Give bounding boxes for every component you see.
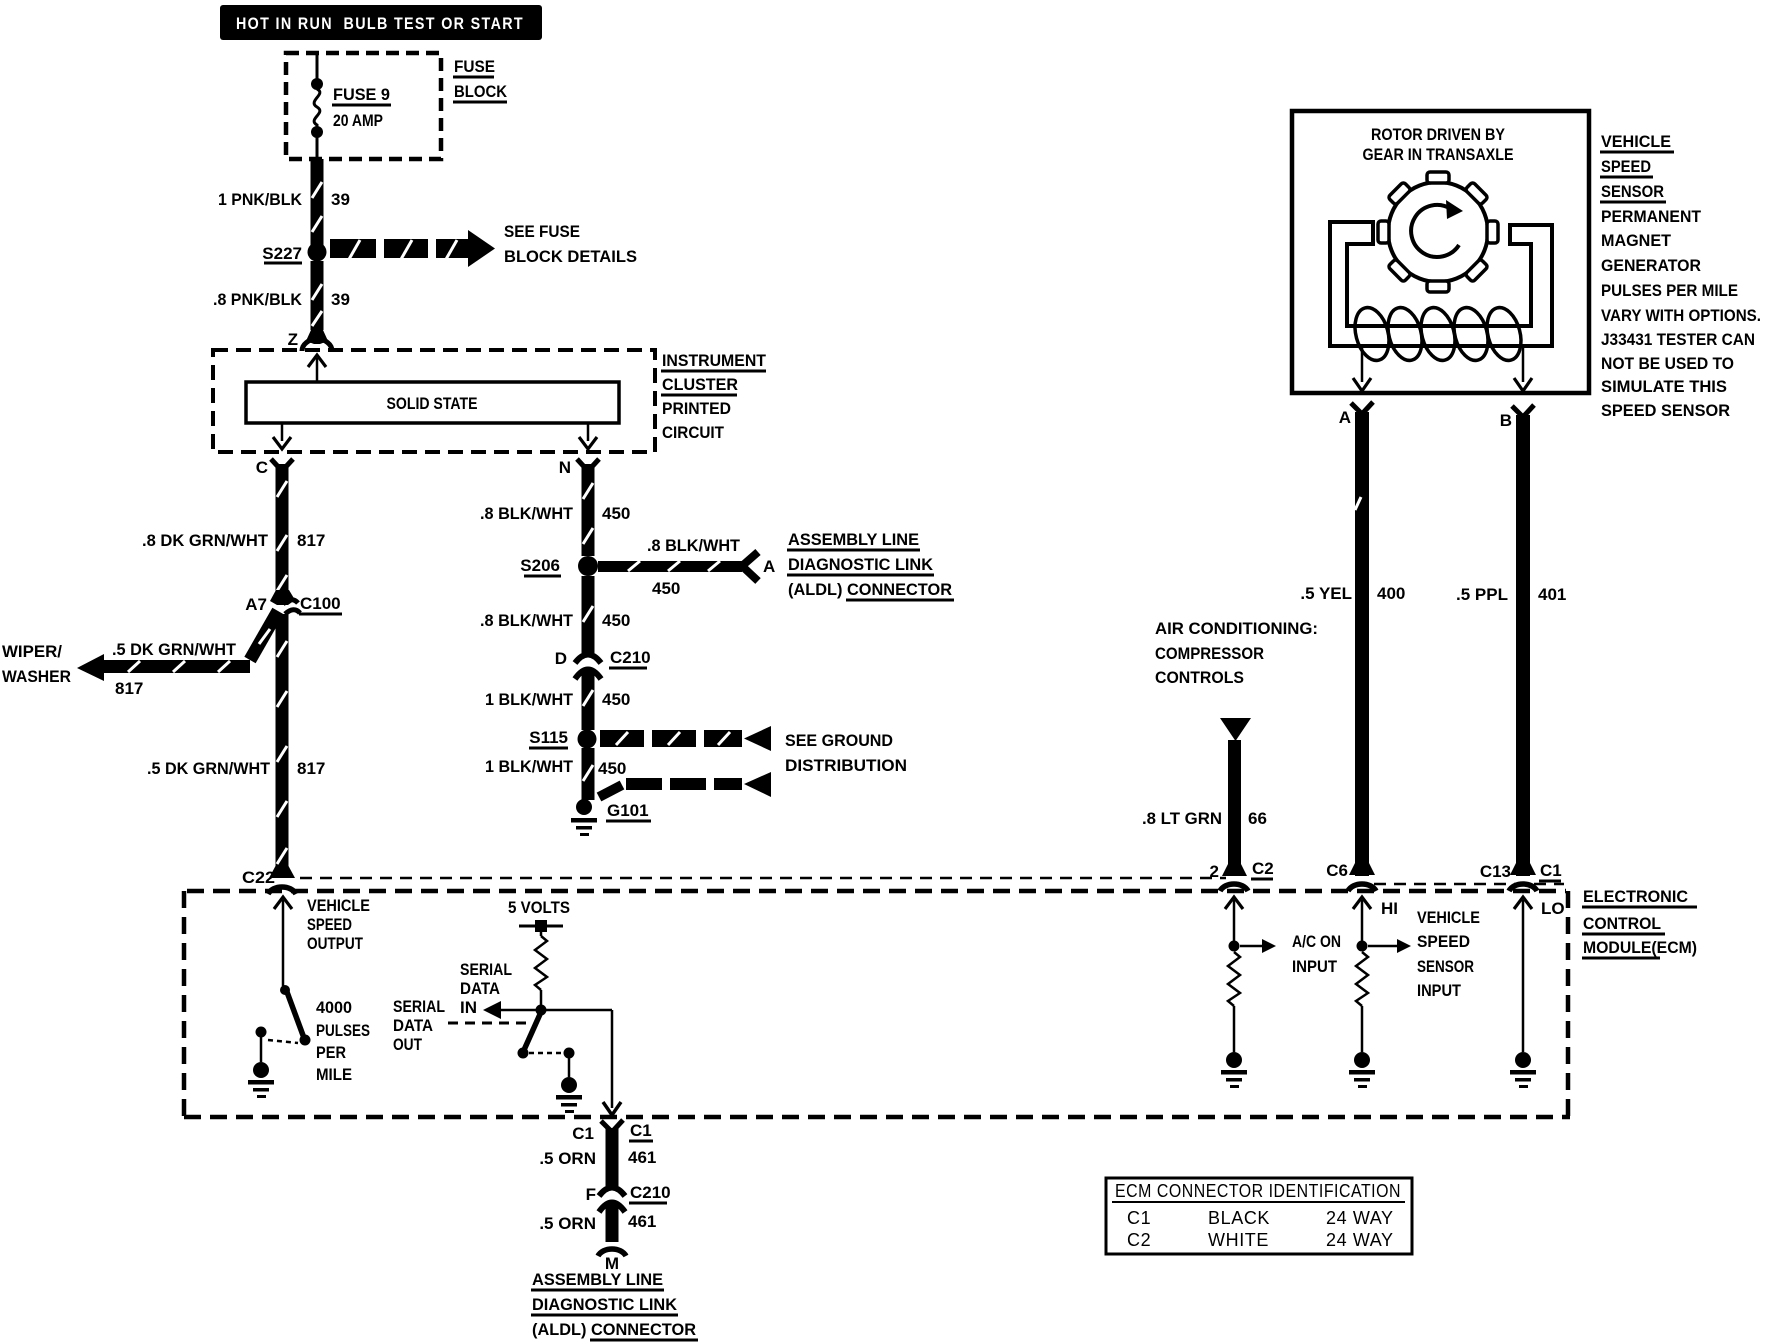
svg-text:SERIAL: SERIAL bbox=[393, 997, 445, 1016]
svg-text:.5 DK GRN/WHT: .5 DK GRN/WHT bbox=[112, 640, 237, 659]
ground G101 bbox=[571, 799, 651, 836]
svg-text:Z: Z bbox=[288, 330, 298, 349]
svg-text:BLOCK DETAILS: BLOCK DETAILS bbox=[504, 247, 637, 266]
wire .8 BLK/WHT 450 seg1 hatched bbox=[582, 464, 595, 556]
splice S227 bbox=[262, 243, 326, 264]
svg-text:817: 817 bbox=[115, 679, 143, 698]
svg-text:PULSES: PULSES bbox=[316, 1021, 370, 1040]
wire label .8 DK GRN/WHT 817 bbox=[142, 531, 325, 550]
wire serial contact to ground bbox=[568, 1053, 571, 1077]
svg-text:400: 400 bbox=[1377, 584, 1405, 603]
svg-text:BLACK: BLACK bbox=[1208, 1208, 1270, 1228]
wire dashed arrow to ground distribution bbox=[599, 772, 771, 797]
wire arrow up from A/C input bbox=[1225, 897, 1243, 941]
wire label .5 PPL 401 bbox=[1456, 585, 1566, 604]
svg-text:INPUT: INPUT bbox=[1417, 981, 1462, 1000]
svg-text:PER: PER bbox=[316, 1043, 346, 1062]
wire .8 DK GRN/WHT 817 hatched bbox=[276, 464, 289, 598]
svg-text:C100: C100 bbox=[300, 594, 341, 613]
node fuse top terminal bbox=[311, 78, 323, 90]
wire .8 BLK/WHT 450 seg2 hatched bbox=[582, 576, 595, 653]
connector pin 2 C2 ECM bbox=[1210, 859, 1274, 891]
svg-text:WASHER: WASHER bbox=[2, 667, 71, 686]
svg-text:1 BLK/WHT: 1 BLK/WHT bbox=[485, 757, 574, 776]
svg-text:S206: S206 bbox=[520, 556, 560, 575]
wire .5 DK GRN/WHT 817 hatched bbox=[276, 614, 289, 877]
wire arrow up HI bbox=[1353, 897, 1398, 941]
svg-text:A: A bbox=[763, 557, 775, 576]
fuse F9 element squiggle bbox=[314, 89, 320, 128]
svg-text:INSTRUMENT: INSTRUMENT bbox=[662, 351, 767, 370]
node 5 VOLTS supply bbox=[508, 898, 570, 932]
node ALDL connector label bottom bbox=[531, 1270, 698, 1340]
svg-text:817: 817 bbox=[297, 531, 325, 550]
wire contact to ground bbox=[260, 1037, 263, 1062]
node SEE GROUND DISTRIBUTION label bbox=[785, 731, 907, 775]
connector pin C bbox=[256, 458, 293, 477]
svg-text:DIAGNOSTIC LINK: DIAGNOSTIC LINK bbox=[532, 1295, 678, 1314]
wire 1 BLK/WHT 450 seg4 hatched bbox=[582, 748, 595, 800]
wire serial data down to C1 bbox=[603, 1010, 621, 1115]
solid state module box bbox=[246, 382, 619, 423]
svg-text:1 PNK/BLK: 1 PNK/BLK bbox=[218, 190, 303, 209]
svg-text:DIAGNOSTIC LINK: DIAGNOSTIC LINK bbox=[788, 555, 934, 574]
svg-text:PULSES PER MILE: PULSES PER MILE bbox=[1601, 281, 1738, 300]
svg-text:A: A bbox=[1339, 408, 1351, 427]
wire label .8 BLK/WHT 450 horizontal bbox=[647, 536, 741, 598]
node serial data junction bbox=[536, 1005, 547, 1016]
wire .8 LT GRN 66 bbox=[1228, 740, 1241, 876]
switch serial data blade bbox=[518, 1012, 542, 1059]
sensor rotation arrow bbox=[1411, 200, 1463, 257]
wire dashed actuate link bbox=[268, 1040, 298, 1043]
svg-text:C1: C1 bbox=[1540, 861, 1562, 880]
node A/C ON INPUT label bbox=[1292, 932, 1341, 976]
svg-text:OUT: OUT bbox=[393, 1035, 422, 1054]
connector C210 pin D bbox=[555, 648, 651, 679]
splice S206 bbox=[520, 556, 598, 576]
instrument cluster label bbox=[661, 351, 767, 442]
svg-text:39: 39 bbox=[331, 190, 350, 209]
node SERIAL DATA OUT label bbox=[393, 997, 445, 1054]
ECM dashed box inner top line right bbox=[1374, 883, 1564, 886]
wire arrow down to pin C bbox=[273, 423, 291, 449]
svg-text:INPUT: INPUT bbox=[1292, 957, 1338, 976]
svg-text:.8 BLK/WHT: .8 BLK/WHT bbox=[647, 536, 741, 555]
svg-text:SENSOR: SENSOR bbox=[1417, 957, 1474, 976]
switch serial contact node bbox=[564, 1048, 575, 1059]
svg-text:.5 DK GRN/WHT: .5 DK GRN/WHT bbox=[147, 759, 271, 778]
svg-text:.8 BLK/WHT: .8 BLK/WHT bbox=[480, 504, 574, 523]
svg-text:VEHICLE: VEHICLE bbox=[1417, 908, 1480, 927]
wire dashed serial switch link bbox=[529, 1052, 563, 1055]
svg-text:WHITE: WHITE bbox=[1208, 1230, 1269, 1250]
svg-text:ASSEMBLY LINE: ASSEMBLY LINE bbox=[788, 530, 919, 549]
node ALDL connector label right bbox=[787, 530, 954, 600]
svg-text:HOT IN RUN BULB TEST OR START: HOT IN RUN BULB TEST OR START bbox=[236, 14, 524, 33]
wire label .5 DK GRN/WHT 817 bbox=[147, 759, 325, 778]
svg-text:ECM CONNECTOR IDENTIFICATION: ECM CONNECTOR IDENTIFICATION bbox=[1115, 1181, 1401, 1201]
resistor A/C input bbox=[1228, 952, 1240, 1052]
wire .5 ORN 461 lower bbox=[606, 1204, 619, 1242]
connector C210 pin F bbox=[586, 1183, 671, 1212]
wire label 1 BLK/WHT 450 seg3 bbox=[485, 690, 630, 709]
svg-text:F: F bbox=[586, 1185, 596, 1204]
node VEHICLE SPEED SENSOR note label bbox=[1600, 132, 1761, 420]
svg-text:C1: C1 bbox=[1127, 1208, 1151, 1228]
svg-text:VEHICLE: VEHICLE bbox=[307, 896, 370, 915]
wire A/C ON INPUT arrow right bbox=[1240, 939, 1276, 953]
svg-text:401: 401 bbox=[1538, 585, 1566, 604]
svg-text:.5 ORN: .5 ORN bbox=[539, 1149, 596, 1168]
ECM dashed box right edge bbox=[1566, 891, 1571, 1117]
svg-text:(ALDL) CONNECTOR: (ALDL) CONNECTOR bbox=[532, 1320, 696, 1339]
svg-text:HI: HI bbox=[1381, 899, 1398, 918]
wire fuse top lead bbox=[316, 55, 319, 80]
svg-text:SOLID STATE: SOLID STATE bbox=[387, 394, 478, 413]
wire fuse bottom lead bbox=[316, 136, 319, 159]
svg-text:24 WAY: 24 WAY bbox=[1326, 1230, 1394, 1250]
svg-text:20 AMP: 20 AMP bbox=[333, 111, 383, 130]
svg-text:450: 450 bbox=[602, 690, 630, 709]
svg-text:.8 PNK/BLK: .8 PNK/BLK bbox=[213, 290, 303, 309]
ground VSS LO bbox=[1510, 1052, 1536, 1088]
ECM connector identification table bbox=[1106, 1178, 1412, 1254]
svg-text:SIMULATE THIS: SIMULATE THIS bbox=[1601, 377, 1727, 396]
connector pin M ALDL bbox=[598, 1249, 626, 1273]
connector pin C6 ECM bbox=[1326, 861, 1376, 891]
wire branch to wiper/washer hatched bbox=[77, 611, 278, 681]
wire arrow up LO bbox=[1514, 897, 1565, 1052]
svg-text:SEE FUSE: SEE FUSE bbox=[504, 222, 580, 241]
svg-text:66: 66 bbox=[1248, 809, 1267, 828]
svg-text:GEAR IN TRANSAXLE: GEAR IN TRANSAXLE bbox=[1363, 145, 1514, 164]
vehicle speed sensor box bbox=[1292, 111, 1589, 393]
svg-text:4000: 4000 bbox=[316, 998, 352, 1017]
svg-text:SPEED: SPEED bbox=[1417, 932, 1470, 951]
connector pin B sensor bbox=[1500, 405, 1534, 430]
svg-text:J33431 TESTER CAN: J33431 TESTER CAN bbox=[1601, 330, 1755, 349]
svg-text:OUTPUT: OUTPUT bbox=[307, 934, 363, 953]
ECM dashed box top edge bbox=[187, 889, 1566, 894]
wire label 1 PNK/BLK 39 bbox=[218, 190, 350, 209]
svg-text:(ALDL) CONNECTOR: (ALDL) CONNECTOR bbox=[788, 580, 952, 599]
svg-text:450: 450 bbox=[652, 579, 680, 598]
wire label .8 BLK/WHT 450 seg1 bbox=[480, 504, 630, 523]
svg-text:24 WAY: 24 WAY bbox=[1326, 1208, 1394, 1228]
ground serial data switch bbox=[556, 1077, 582, 1113]
node ROTOR DRIVEN BY GEAR IN TRANSAXLE label bbox=[1363, 125, 1514, 164]
svg-text:817: 817 bbox=[297, 759, 325, 778]
svg-text:SPEED: SPEED bbox=[307, 915, 352, 934]
svg-text:.5 YEL: .5 YEL bbox=[1300, 584, 1352, 603]
svg-text:BLOCK: BLOCK bbox=[454, 82, 508, 101]
wire dashed serial data out pointer bbox=[448, 1022, 531, 1025]
svg-text:B: B bbox=[1500, 411, 1512, 430]
svg-text:C2: C2 bbox=[1127, 1230, 1151, 1250]
wire coil lead B arrow bbox=[1514, 346, 1532, 391]
svg-text:C1: C1 bbox=[572, 1124, 594, 1143]
node FUSE BLOCK label bbox=[453, 57, 508, 102]
wire arrow to ground distribution hatched bbox=[600, 726, 771, 751]
wire VSS input arrow right bbox=[1368, 939, 1411, 953]
svg-text:MILE: MILE bbox=[316, 1065, 352, 1084]
wire label .5 YEL 400 bbox=[1300, 584, 1405, 603]
node VEHICLE SPEED SENSOR INPUT label bbox=[1417, 908, 1480, 1000]
connector pin C13 C1 ECM bbox=[1480, 861, 1562, 891]
wire label .5 ORN 461 upper bbox=[539, 1148, 656, 1168]
svg-text:SENSOR: SENSOR bbox=[1601, 182, 1664, 201]
sensor magnet core bbox=[1330, 222, 1552, 346]
svg-text:C6: C6 bbox=[1326, 861, 1348, 880]
wire from A/C controls arrow down bbox=[1220, 718, 1251, 741]
svg-text:C13: C13 bbox=[1480, 862, 1511, 881]
svg-text:.8 DK GRN/WHT: .8 DK GRN/WHT bbox=[142, 531, 269, 550]
ECM dashed box bottom edge bbox=[184, 1115, 1570, 1120]
sensor rotor gear bbox=[1378, 172, 1498, 292]
svg-text:1 BLK/WHT: 1 BLK/WHT bbox=[485, 690, 574, 709]
svg-text:450: 450 bbox=[602, 611, 630, 630]
node SEE FUSE BLOCK DETAILS label bbox=[504, 222, 637, 266]
svg-text:C2: C2 bbox=[1252, 859, 1274, 878]
svg-text:461: 461 bbox=[628, 1212, 656, 1231]
wire label .5 DK GRN/WHT 817 branch bbox=[112, 640, 237, 698]
svg-text:SERIAL: SERIAL bbox=[460, 960, 512, 979]
wire coil lead A arrow bbox=[1353, 346, 1371, 391]
svg-text:DISTRIBUTION: DISTRIBUTION bbox=[785, 756, 907, 775]
wire label .8 BLK/WHT 450 seg2 bbox=[480, 611, 630, 630]
svg-text:S115: S115 bbox=[529, 728, 568, 747]
svg-text:GENERATOR: GENERATOR bbox=[1601, 256, 1701, 275]
svg-text:LO: LO bbox=[1541, 899, 1565, 918]
fuse FUSE 9 value label bbox=[332, 85, 391, 130]
splice S115 bbox=[529, 728, 597, 749]
connector pin N bbox=[559, 458, 599, 477]
node ELECTRONIC CONTROL MODULE ECM label bbox=[1582, 887, 1697, 958]
svg-text:2: 2 bbox=[1210, 862, 1219, 881]
svg-text:G101: G101 bbox=[607, 801, 649, 820]
svg-text:COMPRESSOR: COMPRESSOR bbox=[1155, 644, 1264, 663]
svg-text:A7: A7 bbox=[245, 595, 267, 614]
svg-text:DATA: DATA bbox=[460, 979, 500, 998]
node VEHICLE SPEED OUTPUT label bbox=[307, 896, 370, 953]
svg-text:IN: IN bbox=[460, 998, 477, 1017]
wire arrow to fuse block details bbox=[330, 230, 495, 267]
svg-text:C210: C210 bbox=[630, 1183, 671, 1202]
switch contact node bbox=[256, 1027, 267, 1038]
svg-text:A/C ON: A/C ON bbox=[1292, 932, 1341, 951]
svg-text:CIRCUIT: CIRCUIT bbox=[662, 423, 725, 442]
svg-text:CONTROLS: CONTROLS bbox=[1155, 668, 1244, 687]
wire .8 BLK/WHT 450 to ALDL hatched bbox=[598, 552, 758, 581]
svg-text:CONTROL: CONTROL bbox=[1583, 914, 1661, 933]
sensor pickup coil bbox=[1350, 304, 1527, 364]
wire label .8 PNK/BLK 39 bbox=[213, 290, 350, 309]
svg-text:VEHICLE: VEHICLE bbox=[1601, 132, 1671, 151]
wire 1 PNK/BLK 39 hatched bbox=[311, 159, 324, 246]
svg-text:.5 ORN: .5 ORN bbox=[539, 1214, 596, 1233]
resistor pull-up 5V bbox=[535, 932, 547, 1006]
connector pin C22 ECM bbox=[242, 866, 296, 894]
connector pin A sensor bbox=[1339, 402, 1373, 427]
svg-text:450: 450 bbox=[598, 759, 626, 778]
node WIPER/WASHER label bbox=[2, 642, 71, 686]
svg-text:VARY WITH OPTIONS.: VARY WITH OPTIONS. bbox=[1601, 306, 1761, 325]
connector pin Z cluster bbox=[288, 330, 332, 351]
svg-text:5 VOLTS: 5 VOLTS bbox=[508, 898, 570, 917]
node AIR CONDITIONING COMPRESSOR CONTROLS label bbox=[1155, 619, 1318, 687]
wire label 1 BLK/WHT 450 seg4 bbox=[485, 757, 626, 778]
svg-text:C210: C210 bbox=[610, 648, 651, 667]
node A/C junction bbox=[1229, 941, 1240, 952]
ground VSS HI bbox=[1349, 1052, 1375, 1088]
node 4000 PULSES PER MILE label bbox=[316, 998, 370, 1084]
svg-text:SEE GROUND: SEE GROUND bbox=[785, 731, 893, 750]
svg-text:MODULE(ECM): MODULE(ECM) bbox=[1583, 938, 1697, 957]
ground A/C input bbox=[1221, 1052, 1247, 1088]
svg-text:PERMANENT: PERMANENT bbox=[1601, 207, 1702, 226]
svg-text:PRINTED: PRINTED bbox=[662, 399, 731, 418]
svg-text:SPEED: SPEED bbox=[1601, 157, 1651, 176]
svg-text:SPEED SENSOR: SPEED SENSOR bbox=[1601, 401, 1730, 420]
power feed banner HOT IN RUN BULB TEST OR START bbox=[220, 5, 542, 40]
svg-text:WIPER/: WIPER/ bbox=[2, 642, 62, 661]
svg-text:ELECTRONIC: ELECTRONIC bbox=[1583, 887, 1688, 906]
node fuse bottom terminal bbox=[311, 126, 323, 138]
wire label .5 ORN 461 lower bbox=[539, 1212, 656, 1233]
svg-text:.8 LT GRN: .8 LT GRN bbox=[1142, 809, 1222, 828]
wire .8 PNK/BLK 39 hatched bbox=[311, 261, 324, 330]
switch vehicle speed output pivot bbox=[280, 985, 290, 995]
resistor VSS input bbox=[1356, 952, 1368, 1052]
wire arrow down to pin N bbox=[579, 423, 597, 449]
svg-text:FUSE: FUSE bbox=[454, 57, 495, 76]
svg-text:N: N bbox=[559, 458, 571, 477]
svg-text:.5 PPL: .5 PPL bbox=[1456, 585, 1508, 604]
svg-text:DATA: DATA bbox=[393, 1016, 433, 1035]
svg-text:ASSEMBLY LINE: ASSEMBLY LINE bbox=[532, 1270, 663, 1289]
svg-text:C1: C1 bbox=[630, 1121, 652, 1140]
switch vehicle speed output blade bbox=[287, 992, 311, 1046]
svg-text:ROTOR DRIVEN BY: ROTOR DRIVEN BY bbox=[1371, 125, 1506, 144]
wire 1 BLK/WHT 450 seg3 hatched bbox=[582, 671, 595, 730]
svg-text:461: 461 bbox=[628, 1148, 656, 1167]
svg-text:C: C bbox=[256, 458, 268, 477]
svg-text:D: D bbox=[555, 649, 567, 668]
connector C100 pin A7 bbox=[245, 590, 342, 614]
svg-text:AIR CONDITIONING:: AIR CONDITIONING: bbox=[1155, 619, 1318, 638]
svg-text:.8 BLK/WHT: .8 BLK/WHT bbox=[480, 611, 574, 630]
wire label .8 LT GRN 66 bbox=[1142, 809, 1267, 828]
ECM dashed box left edge bbox=[182, 891, 187, 1117]
wire .5 PPL 401 bbox=[1516, 415, 1530, 876]
svg-text:FUSE 9: FUSE 9 bbox=[333, 85, 390, 104]
svg-text:39: 39 bbox=[331, 290, 350, 309]
svg-text:MAGNET: MAGNET bbox=[1601, 231, 1672, 250]
fuse block dashed box bbox=[286, 53, 441, 159]
ground speed output switch bbox=[248, 1062, 274, 1098]
svg-text:S227: S227 bbox=[262, 244, 302, 263]
wire serial data in arrow left bbox=[483, 1001, 612, 1019]
svg-text:CLUSTER: CLUSTER bbox=[662, 375, 738, 394]
ECM dashed box inner top line left bbox=[300, 877, 1226, 880]
svg-text:NOT BE USED TO: NOT BE USED TO bbox=[1601, 354, 1734, 373]
wire arrow up into pin Z bbox=[308, 355, 326, 383]
node VSS HI junction bbox=[1357, 941, 1368, 952]
wire arrow up to C22 bbox=[274, 897, 292, 986]
instrument cluster dashed box bbox=[213, 350, 655, 452]
node SERIAL DATA IN label bbox=[460, 960, 512, 1017]
wire .5 YEL 400 bbox=[1355, 412, 1369, 876]
svg-text:450: 450 bbox=[602, 504, 630, 523]
connector pin C1 ECM bottom bbox=[572, 1120, 653, 1143]
wire .5 ORN 461 upper bbox=[606, 1128, 619, 1186]
